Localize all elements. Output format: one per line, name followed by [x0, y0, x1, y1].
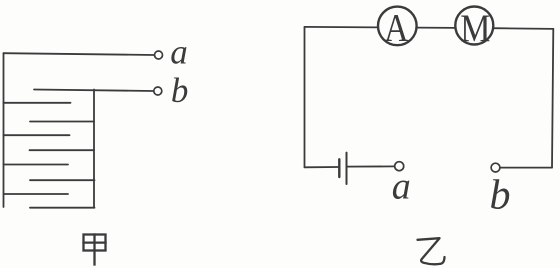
wire right bus vertical (figure jia)	[93, 90, 95, 208]
wire bottom left to battery	[305, 166, 339, 168]
wire between A and M	[417, 27, 456, 29]
label yi (Chinese character)	[418, 238, 445, 264]
svg-text:M: M	[460, 6, 490, 50]
svg-text:A: A	[384, 5, 409, 49]
svg-text:b: b	[171, 71, 189, 110]
wire top right (figure yi)	[493, 27, 553, 30]
wire b lead / top right plate (figure jia)	[34, 90, 154, 92]
battery G1 short plate	[338, 159, 340, 177]
wire left vertical (figure yi)	[304, 27, 306, 167]
svg-text:a: a	[170, 32, 188, 71]
wire bottom right (figure yi)	[500, 167, 552, 169]
battery G1 long plate	[346, 153, 348, 184]
ammeter A1 circle	[378, 7, 417, 46]
battery right plate 2	[30, 121, 94, 123]
node b terminal circle (figure jia)	[154, 87, 162, 95]
wire top left (figure yi)	[305, 26, 379, 29]
wire right vertical (figure yi)	[552, 29, 553, 168]
node b terminal circle (figure yi)	[491, 163, 500, 172]
svg-text:b: b	[490, 173, 511, 219]
battery right plate 6	[30, 179, 95, 181]
svg-text:a: a	[392, 166, 411, 208]
wire a lead (figure jia)	[4, 53, 155, 55]
battery left plate 1	[4, 102, 71, 104]
battery left plate 7	[4, 193, 69, 195]
node a terminal circle (figure yi)	[395, 162, 404, 171]
wire left bus vertical (figure jia)	[3, 53, 5, 207]
wire battery to node a	[347, 165, 395, 167]
node a terminal circle (figure jia)	[155, 51, 163, 59]
motor M1 circle	[455, 7, 493, 45]
battery left plate 5	[4, 164, 69, 166]
battery right plate 8	[30, 207, 95, 209]
battery right plate 4	[30, 149, 95, 151]
battery left plate 3	[4, 134, 70, 136]
label jia (Chinese character)	[84, 235, 106, 265]
